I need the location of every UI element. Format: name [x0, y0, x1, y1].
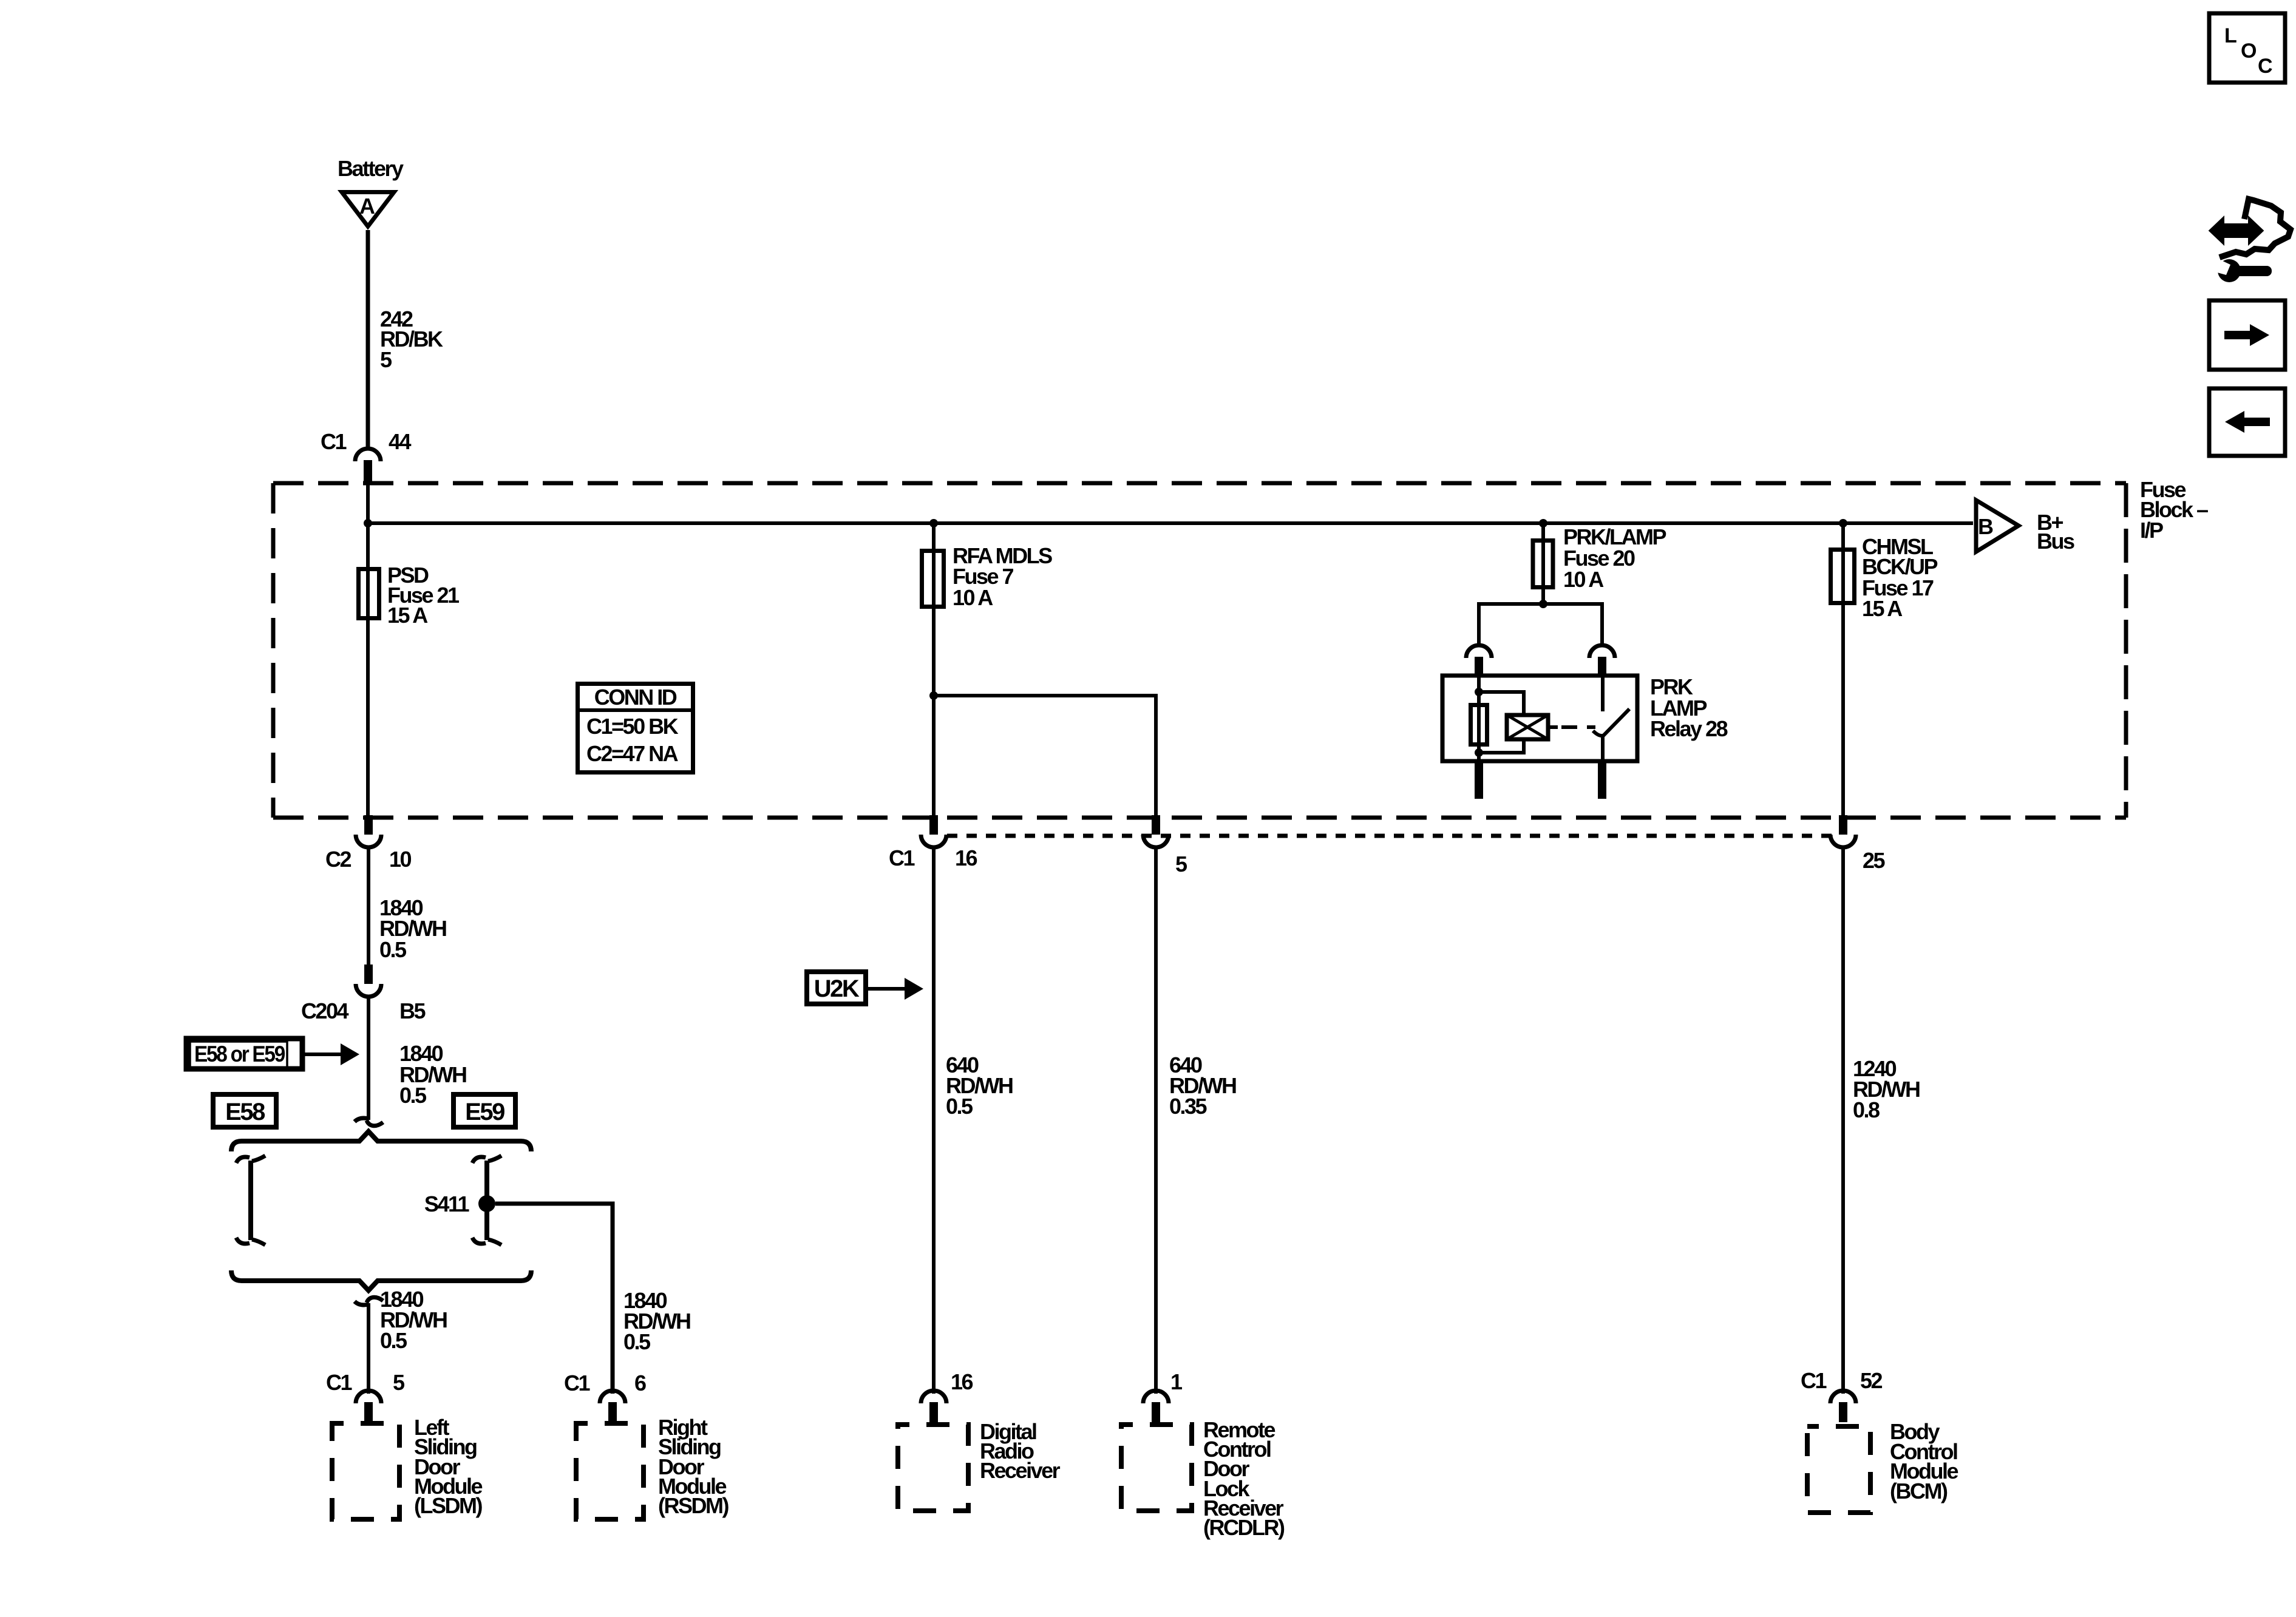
label Fuse Block - I/P: [2140, 477, 2208, 543]
svg-text:0.35: 0.35: [1169, 1094, 1207, 1119]
svg-text:C1: C1: [889, 846, 915, 870]
connector C1 pin 52 BCM: [1830, 1391, 1856, 1422]
label 640 RD/WH 0.5: [946, 1053, 1013, 1119]
brace lower: [231, 1270, 531, 1290]
resistor relay: [1471, 705, 1487, 745]
wire pin5 to RCDLR: [1154, 846, 1158, 1394]
node CHMSL junction: [1839, 519, 1847, 527]
svg-text:15 A: 15 A: [387, 603, 428, 628]
wire RFA branch: [934, 696, 1156, 816]
brace upper: [231, 1131, 531, 1151]
svg-text:O: O: [2241, 39, 2257, 63]
svg-text:B: B: [1978, 514, 1993, 539]
svg-text:L: L: [2224, 24, 2237, 47]
svg-text:I/P: I/P: [2140, 518, 2163, 543]
svg-text:A: A: [359, 194, 375, 219]
label PRK/LAMP Fuse 20 10 A: [1563, 524, 1666, 592]
node battery junction: [364, 519, 372, 527]
module box Digital Radio Receiver: [898, 1425, 968, 1511]
fuse block dashed border right: [2124, 483, 2128, 818]
svg-text:0.8: 0.8: [1853, 1097, 1880, 1122]
relay PRK LAMP Relay 28 box: [1442, 676, 1637, 761]
label PRK LAMP Relay 28: [1650, 674, 1728, 741]
label 1840 RD/WH 0.5: [380, 1287, 447, 1353]
connector C1 strip dotted line: [947, 834, 1841, 838]
B+ bus out triangle B: [1976, 500, 2019, 552]
svg-text:C: C: [2258, 55, 2272, 78]
wire C1-44 to bus: [366, 483, 370, 523]
label PSD Fuse 21 15 A: [387, 563, 460, 628]
svg-text:Relay 28: Relay 28: [1650, 716, 1728, 741]
svg-text:C1: C1: [564, 1371, 590, 1395]
connector C1 pin 44: [355, 449, 381, 483]
svg-text:52: 52: [1860, 1368, 1883, 1393]
right arrow box: [2209, 300, 2285, 370]
label box E59: [453, 1094, 515, 1127]
connector relay pin right: [1589, 645, 1615, 677]
wire battery to C1-44: [366, 230, 370, 449]
LOC box: [2209, 13, 2285, 83]
label 1240 RD/WH 0.8: [1853, 1056, 1920, 1122]
label Digital Radio Receiver: [980, 1419, 1061, 1483]
svg-text:C2=47 NA: C2=47 NA: [586, 741, 679, 766]
relay pin bottom left: [1475, 761, 1483, 799]
label Remote Control Door Lock Receiver (RCDLR): [1203, 1417, 1285, 1540]
wire coil to mech link: [1548, 725, 1558, 729]
left arrow box: [2209, 388, 2285, 456]
wire C204 to splice region: [367, 995, 370, 1120]
label 242 RD/BK 5: [380, 307, 443, 372]
svg-text:E58: E58: [225, 1099, 265, 1125]
svg-text:(BCM): (BCM): [1890, 1479, 1948, 1503]
fuse block dashed border top: [273, 481, 2126, 486]
node relay top: [1475, 688, 1483, 696]
switch relay contact: [1601, 676, 1605, 711]
connector relay pin left: [1466, 645, 1492, 677]
svg-text:C1=50 BK: C1=50 BK: [586, 714, 679, 739]
label Body Control Module (BCM): [1890, 1419, 1958, 1503]
coil relay winding box: [1507, 715, 1548, 739]
node relay bottom: [1475, 748, 1483, 757]
U2K box: [807, 972, 866, 1004]
fuse block dashed border left: [271, 483, 276, 818]
connector C1 pin 16: [921, 815, 946, 847]
svg-text:(LSDM): (LSDM): [414, 1493, 482, 1518]
inline connector E59 leg: [472, 1156, 501, 1245]
diagnostic icon (arrow, part outline, wrench): [2206, 199, 2291, 282]
connector C1 pin 5 LSDM: [356, 1391, 381, 1422]
wire end curl above brace: [355, 1118, 383, 1126]
mechanical link dashes: [1561, 725, 1595, 729]
svg-text:1: 1: [1170, 1369, 1183, 1394]
connector pin 1 RCDLR: [1143, 1391, 1169, 1422]
svg-text:5: 5: [393, 1370, 405, 1395]
label 1840 RD/WH 0.5: [399, 1041, 466, 1108]
wire to LSDM: [367, 1303, 370, 1394]
svg-text:Bus: Bus: [2037, 529, 2074, 554]
label B+ Bus: [2037, 510, 2074, 554]
svg-text:5: 5: [380, 347, 392, 372]
module box RCDLR: [1121, 1425, 1192, 1511]
svg-text:25: 25: [1863, 848, 1886, 873]
svg-text:C1: C1: [326, 1370, 352, 1395]
label RFA MDLS Fuse 7 10 A: [953, 543, 1052, 610]
wire relay coil left leg: [1477, 676, 1481, 761]
svg-text:6: 6: [634, 1371, 646, 1395]
relay pin bottom right: [1598, 761, 1606, 799]
module box BCM: [1807, 1426, 1870, 1513]
svg-text:5: 5: [1175, 852, 1187, 876]
wire C1-16 to Digital Radio Receiver: [932, 846, 936, 1394]
svg-text:E58 or E59: E58 or E59: [194, 1042, 285, 1066]
label box E58: [213, 1094, 276, 1127]
connector pin 16 DRR: [921, 1391, 946, 1422]
module box RSDM: [576, 1423, 644, 1519]
module box LSDM: [332, 1423, 399, 1519]
label CHMSL BCK/UP Fuse 17 15 A: [1862, 534, 1937, 621]
svg-text:(RSDM): (RSDM): [658, 1493, 729, 1518]
label 640 RD/WH 0.35: [1169, 1053, 1236, 1119]
svg-text:(RCDLR): (RCDLR): [1203, 1515, 1285, 1540]
svg-text:10 A: 10 A: [953, 585, 993, 610]
label Left Sliding Door Module (LSDM): [414, 1415, 482, 1518]
splice S411: [478, 1195, 495, 1212]
fuse CHMSL BCK/UP Fuse 17: [1831, 550, 1855, 603]
wire pin25 to BCM: [1841, 846, 1845, 1394]
svg-text:0.5: 0.5: [379, 937, 407, 962]
fuse RFA MDLS Fuse 7: [922, 551, 944, 607]
connector C1 pin 5: [1143, 815, 1169, 847]
wire relay feed: [1479, 604, 1602, 645]
arrow U2K to wire: [868, 978, 923, 1000]
wire bus to CHMSL fuse: [1841, 523, 1845, 816]
svg-text:C1: C1: [321, 429, 347, 454]
svg-text:CONN ID: CONN ID: [594, 685, 677, 710]
wire C2-10 to C204: [367, 846, 370, 966]
svg-text:B5: B5: [399, 998, 426, 1023]
wire start curl below brace: [355, 1297, 383, 1305]
wire bus to PSD fuse: [366, 523, 370, 816]
svg-text:U2K: U2K: [814, 975, 860, 1002]
switch relay arm: [1593, 709, 1629, 761]
wire relay coil branch: [1479, 692, 1524, 753]
node PRK fuse bottom junction: [1539, 600, 1547, 608]
wire S411 to RSDM drop: [495, 1204, 613, 1394]
fuse PRK/LAMP Fuse 20: [1533, 541, 1553, 588]
svg-text:10: 10: [389, 847, 412, 872]
wire bus to RFA fuse: [932, 523, 936, 816]
svg-text:10 A: 10 A: [1563, 567, 1604, 592]
svg-text:0.5: 0.5: [946, 1094, 973, 1119]
svg-text:0.5: 0.5: [623, 1329, 651, 1354]
label box E58 or E59: [186, 1039, 302, 1069]
svg-text:E59: E59: [465, 1099, 504, 1125]
connector C204 pin B5: [356, 964, 381, 997]
svg-text:16: 16: [955, 846, 977, 870]
svg-text:C1: C1: [1801, 1368, 1827, 1393]
svg-text:C204: C204: [301, 998, 349, 1023]
battery feed triangle A: [342, 192, 394, 227]
svg-text:44: 44: [389, 429, 412, 454]
svg-text:0.5: 0.5: [399, 1083, 427, 1108]
label 1840 RD/WH 0.5: [379, 895, 446, 962]
arrow E58 or E59 to wire: [305, 1043, 359, 1065]
svg-text:0.5: 0.5: [380, 1328, 407, 1353]
connector C2 pin 10: [356, 815, 381, 847]
wire bus to PRK fuse: [1541, 523, 1545, 604]
svg-text:Receiver: Receiver: [980, 1458, 1061, 1483]
svg-text:16: 16: [951, 1369, 973, 1394]
svg-text:15 A: 15 A: [1862, 596, 1903, 621]
CONN ID table: [576, 684, 695, 773]
node PRK junction: [1539, 519, 1547, 527]
label Right Sliding Door Module (RSDM): [658, 1415, 729, 1518]
connector C1 pin 25: [1830, 815, 1856, 847]
fuse block dashed border bottom: [273, 816, 2126, 820]
connector C1 pin 6 RSDM: [600, 1391, 625, 1422]
inline connector E58 leg: [236, 1156, 265, 1245]
B+ bus wire: [368, 521, 1973, 525]
fuse PSD Fuse 21: [359, 569, 379, 619]
svg-text:C2: C2: [325, 847, 351, 872]
label 1840 RD/WH 0.5: [623, 1288, 690, 1354]
node RFA branch junction: [929, 691, 938, 700]
svg-text:Battery: Battery: [338, 156, 404, 181]
node RFA junction: [929, 519, 938, 527]
svg-text:S411: S411: [424, 1192, 470, 1216]
